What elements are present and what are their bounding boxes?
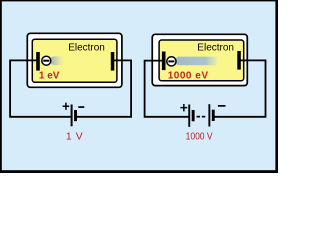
battery B1 plus sign xyxy=(63,103,70,110)
battery B2 cell 1 short plate xyxy=(192,110,195,121)
electron e2 velocity tail xyxy=(176,57,220,66)
wire right circuit: left electrode to battery B2 positive xyxy=(145,61,189,117)
battery B2 minus sign xyxy=(218,105,226,107)
svg-text:Electron: Electron xyxy=(68,42,105,53)
electrode plate T1 right (anode) xyxy=(111,52,115,71)
svg-text:1000 V: 1000 V xyxy=(186,131,213,142)
frame border xyxy=(0,0,278,173)
svg-text:Electron: Electron xyxy=(197,43,234,54)
battery B2 cell 1 long plate xyxy=(188,105,190,127)
electrode plate T1 left (cathode) xyxy=(36,52,40,71)
wire left circuit: left electrode to battery B1 positive xyxy=(10,60,71,116)
battery B1 short plate (negative) xyxy=(74,110,77,121)
svg-text:1000 eV: 1000 eV xyxy=(168,71,209,82)
electron e2 symbol xyxy=(167,57,176,66)
vacuum tube T1 outer case xyxy=(27,33,122,87)
svg-text:1 eV: 1 eV xyxy=(39,70,60,81)
electron e1 symbol xyxy=(42,56,51,65)
electron e1 velocity tail xyxy=(51,56,66,65)
battery B1 long plate (positive) xyxy=(71,105,73,127)
wire right circuit: battery B2 negative to right electrode xyxy=(214,60,265,116)
battery B2 dashed link dash 2 xyxy=(202,116,206,118)
electrode plate T2 left (cathode) xyxy=(162,52,166,71)
vacuum tube T2 inner chamber xyxy=(159,40,244,81)
battery B2 dashed link dash 1 xyxy=(197,116,200,118)
battery B2 plus sign xyxy=(180,104,187,111)
vacuum tube T1 inner chamber xyxy=(32,39,117,82)
battery B2 cell 2 short plate xyxy=(212,110,215,121)
wire left circuit: battery B1 negative to right electrode xyxy=(77,60,131,116)
battery B1 minus sign xyxy=(78,106,84,108)
electrode plate T2 right (anode) xyxy=(237,51,241,70)
battery B2 cell 2 long plate xyxy=(208,104,210,126)
vacuum tube T2 outer case xyxy=(152,34,247,85)
